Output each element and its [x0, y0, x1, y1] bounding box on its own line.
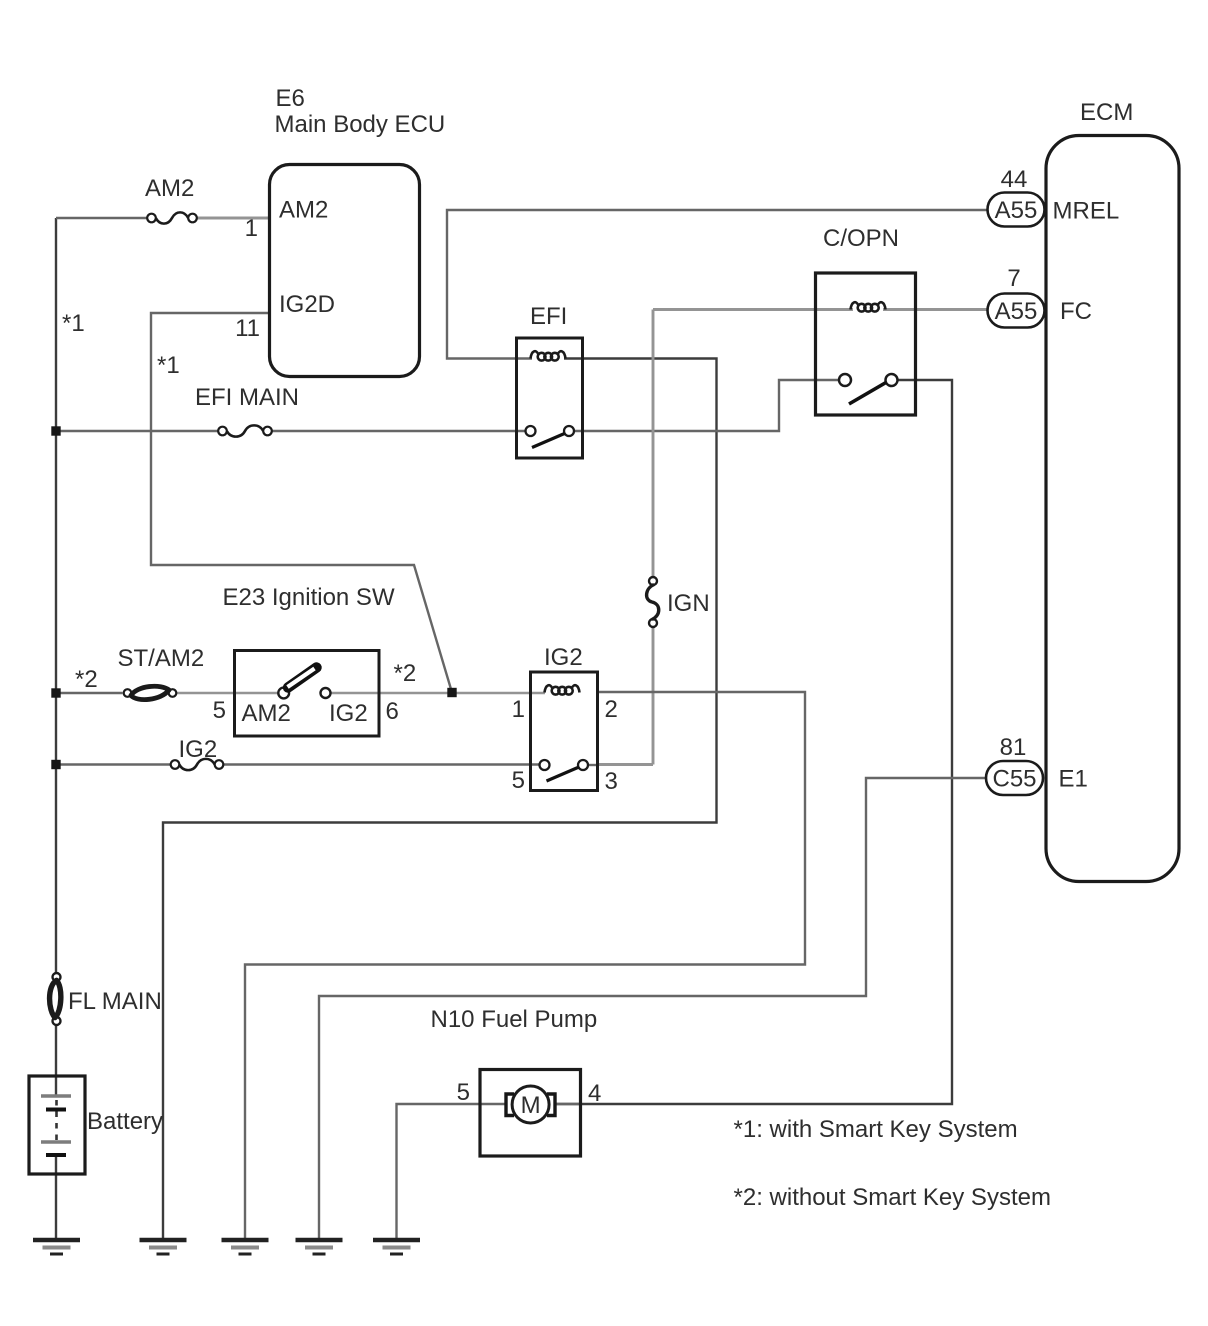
- svg-text:5: 5: [457, 1079, 470, 1106]
- svg-text:MREL: MREL: [1053, 198, 1120, 225]
- svg-text:2: 2: [605, 696, 618, 723]
- svg-text:AM2: AM2: [242, 700, 291, 727]
- svg-text:44: 44: [1001, 166, 1028, 193]
- svg-text:81: 81: [1000, 734, 1027, 761]
- svg-text:E23 Ignition SW: E23 Ignition SW: [223, 584, 395, 611]
- svg-text:5: 5: [213, 697, 226, 724]
- svg-text:N10 Fuel Pump: N10 Fuel Pump: [431, 1006, 598, 1033]
- svg-text:ECM: ECM: [1080, 99, 1133, 126]
- svg-text:AM2: AM2: [279, 197, 328, 224]
- svg-text:*1: with Smart Key System: *1: with Smart Key System: [734, 1116, 1018, 1143]
- svg-text:FL MAIN: FL MAIN: [68, 988, 162, 1015]
- svg-text:IG2: IG2: [329, 700, 368, 727]
- svg-text:*1: *1: [157, 352, 180, 379]
- svg-text:11: 11: [235, 315, 260, 342]
- svg-text:IG2D: IG2D: [279, 291, 335, 318]
- svg-text:E6: E6: [276, 85, 305, 112]
- svg-text:*1: *1: [62, 310, 85, 337]
- svg-text:3: 3: [605, 768, 618, 795]
- svg-text:7: 7: [1007, 265, 1020, 292]
- svg-text:IG2: IG2: [179, 736, 218, 763]
- svg-text:FC: FC: [1060, 298, 1092, 325]
- svg-text:4: 4: [588, 1080, 601, 1107]
- svg-text:Main Body ECU: Main Body ECU: [275, 111, 446, 138]
- svg-text:1: 1: [512, 696, 525, 723]
- svg-text:1: 1: [245, 215, 258, 242]
- svg-text:Battery: Battery: [87, 1108, 163, 1135]
- svg-text:A55: A55: [995, 298, 1038, 325]
- svg-text:5: 5: [512, 767, 525, 794]
- svg-text:EFI MAIN: EFI MAIN: [195, 384, 299, 411]
- svg-text:*2: *2: [75, 666, 98, 693]
- svg-text:EFI: EFI: [530, 303, 567, 330]
- svg-text:IGN: IGN: [667, 590, 710, 617]
- svg-text:M: M: [521, 1092, 541, 1119]
- svg-text:E1: E1: [1059, 766, 1088, 793]
- svg-text:IG2: IG2: [544, 644, 583, 671]
- svg-text:6: 6: [386, 698, 399, 725]
- svg-text:*2: without Smart Key System: *2: without Smart Key System: [734, 1184, 1051, 1211]
- svg-text:A55: A55: [995, 197, 1038, 224]
- svg-text:C55: C55: [992, 766, 1036, 793]
- svg-text:ST/AM2: ST/AM2: [118, 645, 205, 672]
- svg-text:AM2: AM2: [145, 175, 194, 202]
- svg-text:C/OPN: C/OPN: [823, 225, 899, 252]
- svg-text:*2: *2: [394, 660, 417, 687]
